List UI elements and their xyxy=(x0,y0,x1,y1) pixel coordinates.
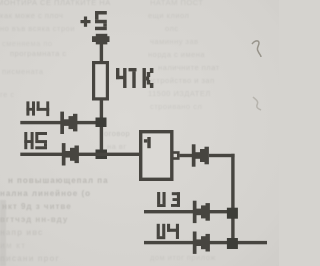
svg-text:ге с: ге с xyxy=(0,90,15,99)
svg-text:вгтчэд нн-вду: вгтчэд нн-вду xyxy=(0,215,68,224)
svg-text:11500 ИЗДАТЕЛ: 11500 ИЗДАТЕЛ xyxy=(148,89,211,98)
svg-text:на вг: на вг xyxy=(107,142,127,151)
svg-text:нална линейное (о: нална линейное (о xyxy=(0,189,91,198)
svg-text:програмната с: програмната с xyxy=(10,49,67,58)
svg-text:писмената: писмената xyxy=(2,67,44,76)
svg-text:наличните плат: наличните плат xyxy=(158,63,220,72)
svg-text:н повышающепал па: н повышающепал па xyxy=(8,176,109,185)
svg-text:норда с имена: норда с имена xyxy=(148,50,205,59)
svg-text:чаминну зав: чаминну зав xyxy=(150,37,199,46)
svg-text:МОНТИРА СЕ ПЛАТКИТЕ НА: МОНТИРА СЕ ПЛАТКИТЕ НА xyxy=(0,0,111,7)
svg-text:устройство и зап: устройство и зап xyxy=(148,76,215,85)
svg-text:олс: олс xyxy=(165,24,179,33)
svg-text:оговор: оговор xyxy=(104,129,130,138)
svg-text:строивано сл: строивано сл xyxy=(150,102,202,111)
svg-text:сменяема по: сменяема по xyxy=(2,39,53,48)
svg-text:напр ивс: напр ивс xyxy=(0,228,43,237)
svg-text:ещи клиол: ещи клиол xyxy=(148,11,189,20)
svg-text:нкт 9д з читве: нкт 9д з читве xyxy=(2,202,72,211)
svg-text:НАТАМ ПОСТ: НАТАМ ПОСТ xyxy=(150,0,203,7)
svg-text:писани прог: писани прог xyxy=(0,254,60,263)
svg-text:но във всяка строи: но във всяка строи xyxy=(0,24,75,33)
svg-text:дом итог прилож: дом итог прилож xyxy=(150,253,216,262)
svg-text:как може с плоч: как може с плоч xyxy=(0,11,63,20)
